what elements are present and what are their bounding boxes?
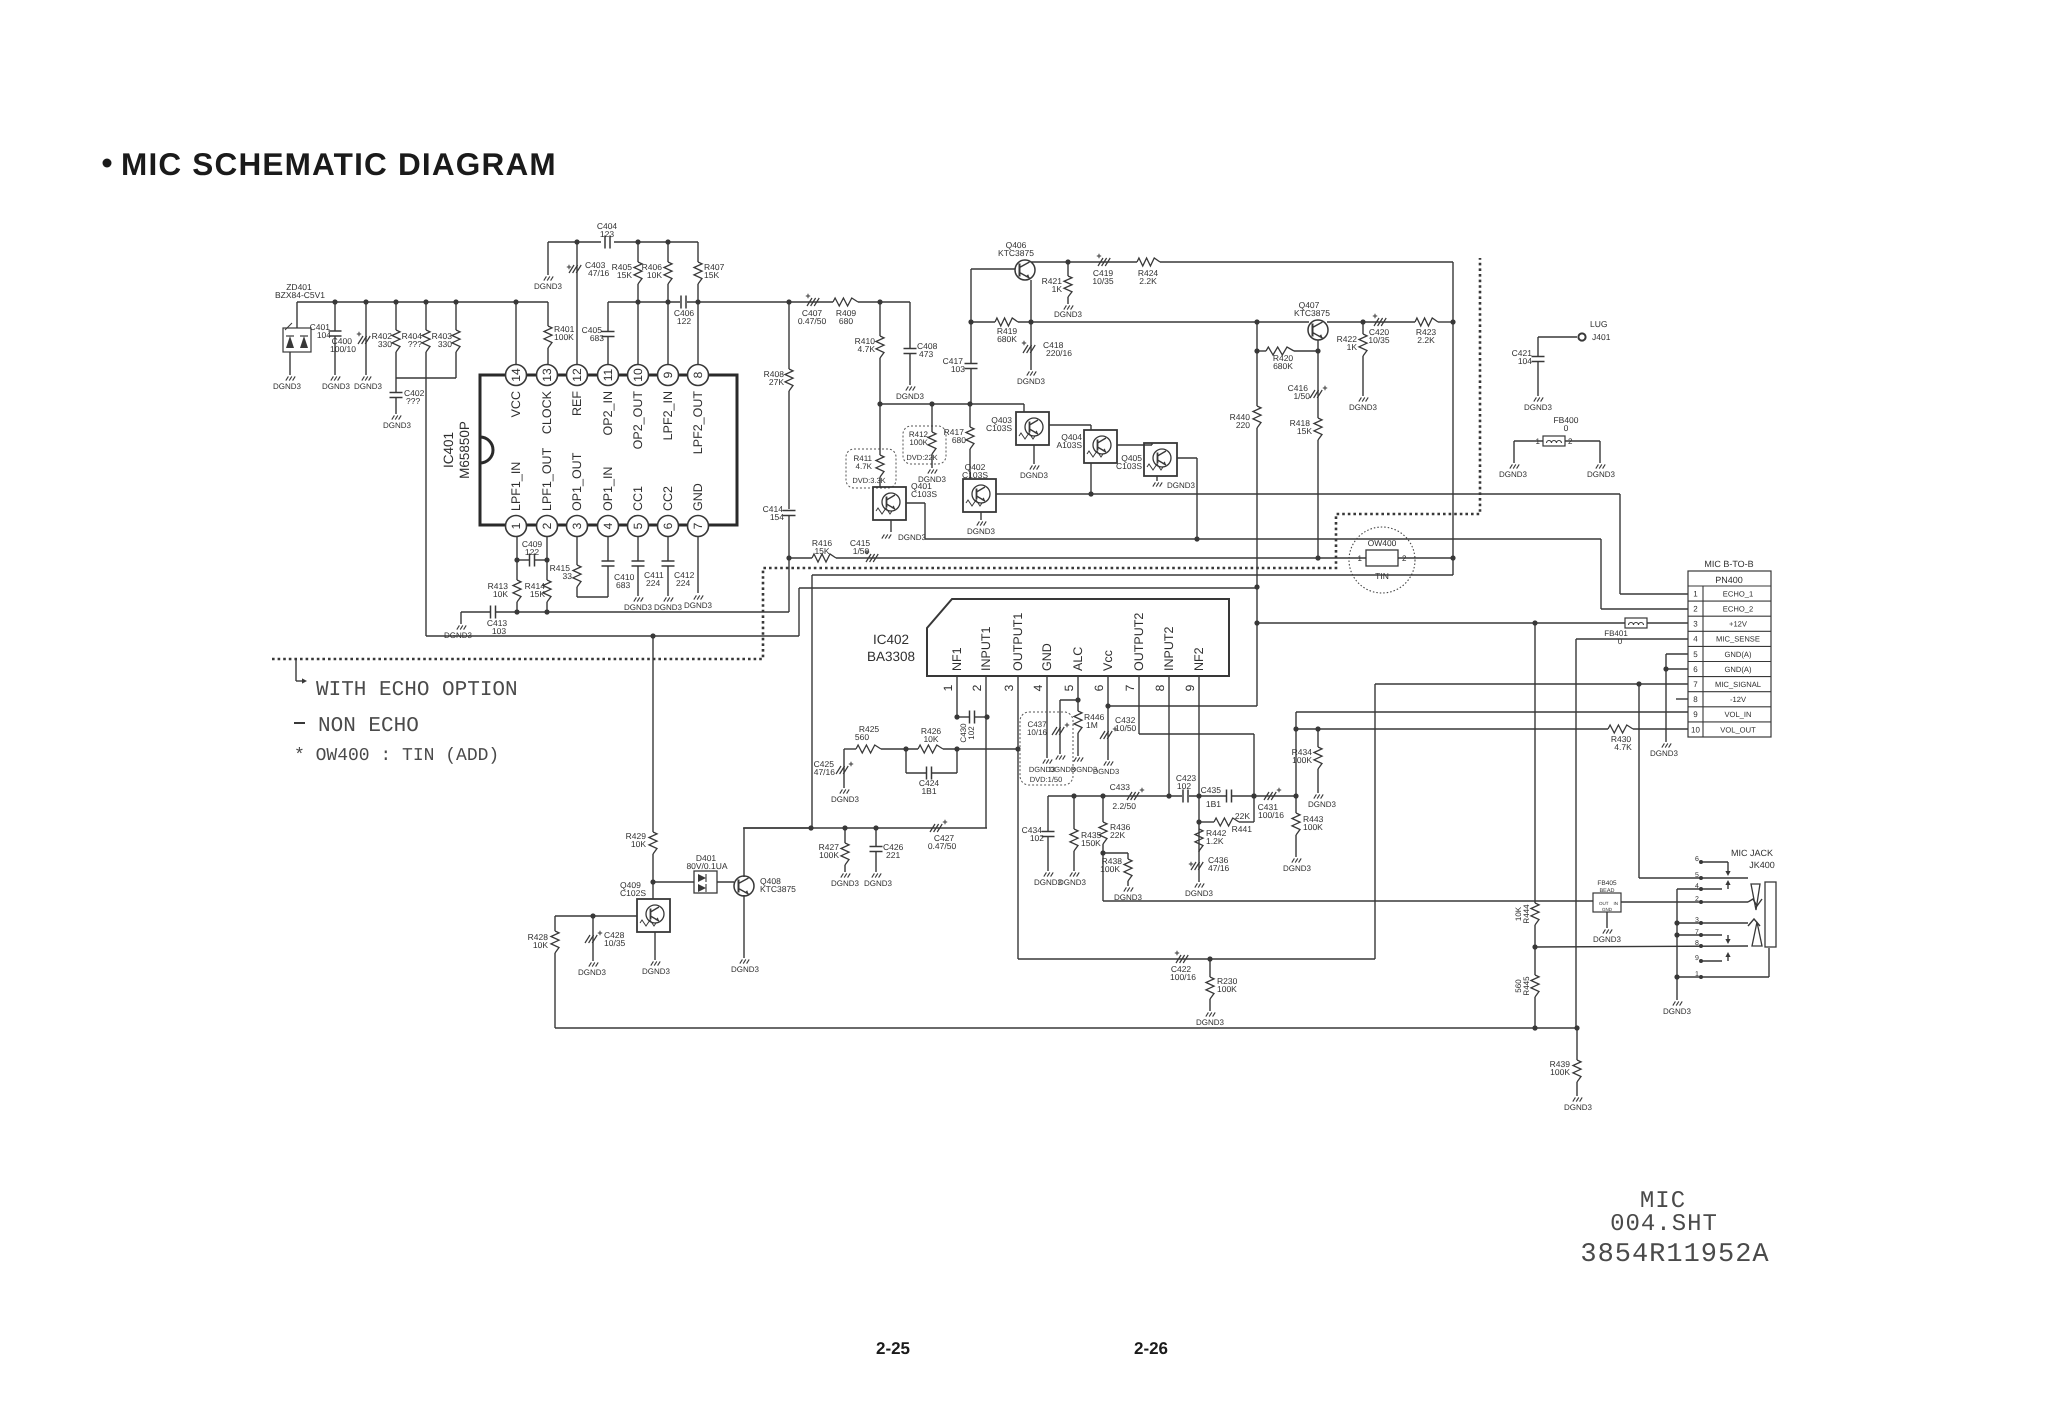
svg-text:DGND3: DGND3: [1663, 1007, 1692, 1016]
svg-text:14: 14: [509, 368, 523, 382]
svg-text:15K: 15K: [530, 589, 545, 599]
ground R435: [1070, 872, 1073, 876]
svg-text:2: 2: [970, 684, 984, 691]
wire Q404 collector to Q405: [1117, 444, 1152, 446]
jack JK400 terminal 9: [1699, 959, 1703, 963]
svg-text:PN400: PN400: [1715, 575, 1743, 585]
ground R412: [928, 469, 931, 473]
svg-text:VOL_IN: VOL_IN: [1724, 710, 1751, 719]
capacitor C400: [365, 302, 367, 375]
wire pin3 OUTPUT1 column: [1017, 690, 1019, 959]
svg-text:5: 5: [1062, 684, 1076, 691]
svg-text:680: 680: [952, 435, 966, 445]
capacitor C428: [592, 916, 594, 961]
svg-text:DGND3: DGND3: [898, 533, 927, 542]
capacitor C402: [395, 378, 397, 392]
svg-text:7: 7: [691, 522, 705, 529]
capacitor C401: [334, 302, 336, 331]
wire x653 column: [652, 636, 654, 832]
svg-text:???: ???: [406, 396, 420, 406]
ground C428: [589, 962, 592, 966]
wire mic_signal y684: [1375, 683, 1688, 685]
transistor Q406: [1015, 260, 1035, 280]
title bullet: [103, 159, 112, 168]
svg-text:8: 8: [1693, 695, 1698, 704]
svg-text:DGND3: DGND3: [1283, 864, 1312, 873]
svg-text:DGND3: DGND3: [831, 795, 860, 804]
svg-text:LPF1_OUT: LPF1_OUT: [540, 447, 554, 511]
wire pin5/6 gnd column: [1666, 653, 1688, 655]
svg-text:DGND3: DGND3: [1349, 403, 1378, 412]
svg-text:DGND3: DGND3: [654, 603, 683, 612]
resistor R446: [1074, 711, 1082, 733]
svg-text:GND: GND: [1040, 643, 1054, 671]
svg-text:R441: R441: [1232, 824, 1253, 834]
svg-text:KTC3875: KTC3875: [998, 248, 1034, 258]
resistor R417: [969, 404, 971, 427]
svg-text:DVD:22K: DVD:22K: [906, 453, 937, 462]
wire Q409 base y916: [555, 915, 637, 917]
svg-text:10/50: 10/50: [1115, 723, 1137, 733]
svg-text:10: 10: [631, 368, 645, 382]
svg-text:MIC_SENSE: MIC_SENSE: [1716, 635, 1760, 644]
resistor R442: [1195, 829, 1203, 851]
ground C412: [664, 597, 667, 601]
svg-text:DGND3: DGND3: [684, 601, 713, 610]
svg-text:3: 3: [570, 522, 584, 529]
wire Q401 collector to echo2 bus: [906, 502, 925, 504]
svg-text:2.2K: 2.2K: [1139, 276, 1157, 286]
wire input network y749: [844, 748, 856, 750]
svg-text:* OW400 : TIN (ADD): * OW400 : TIN (ADD): [294, 746, 499, 766]
wire echo2 bus y539: [925, 538, 1601, 540]
capacitor C431: [1264, 792, 1269, 800]
capacitor C407: [807, 298, 812, 306]
svg-text:GND: GND: [691, 483, 705, 511]
svg-text:33: 33: [563, 571, 573, 581]
wire FB405 out to jack pin2: [1621, 901, 1748, 903]
resistor R424: [1137, 258, 1160, 266]
capacitor C418: [1030, 322, 1032, 370]
wire jack pin2 contact: [1748, 899, 1762, 906]
ground C425: [840, 789, 843, 793]
ground C411: [634, 597, 637, 601]
capacitor C411: [637, 537, 639, 561]
capacitor C421: [1532, 356, 1545, 358]
svg-text:100/10: 100/10: [330, 344, 356, 354]
svg-text:3: 3: [1002, 684, 1016, 691]
svg-text:47/16: 47/16: [588, 268, 610, 278]
jack JK400 terminal 7: [1699, 933, 1703, 937]
ground left end of C404 rail: [547, 242, 549, 275]
svg-text:6: 6: [1695, 856, 1699, 863]
dashed echo option bus: [272, 258, 1480, 659]
svg-text:680K: 680K: [1273, 361, 1293, 371]
svg-text:MIC JACK: MIC JACK: [1731, 848, 1773, 858]
svg-text:DGND3: DGND3: [1196, 1018, 1225, 1027]
svg-text:683: 683: [616, 580, 630, 590]
wire y588 feed: [799, 587, 1257, 589]
resistor R406: [667, 242, 669, 262]
svg-text:DVD:3.3K: DVD:3.3K: [852, 476, 885, 485]
svg-text:6: 6: [1092, 684, 1106, 691]
pin 14 IC401 VCC: [506, 365, 527, 386]
transistor Q409 digital: [637, 899, 670, 932]
svg-text:22K: 22K: [1110, 830, 1125, 840]
svg-text:104: 104: [317, 330, 331, 340]
transistor Q401 digital: [873, 487, 906, 520]
transistor Q404 digital: [1084, 430, 1117, 463]
svg-text:LPF1_IN: LPF1_IN: [509, 462, 523, 511]
wire C414 down to y612: [786, 555, 791, 560]
svg-text:DGND3: DGND3: [896, 392, 925, 401]
svg-text:DGND3: DGND3: [1650, 749, 1679, 758]
capacitor C403 on REF pin: [576, 242, 578, 364]
svg-text:12: 12: [570, 368, 584, 382]
svg-text:100K: 100K: [1100, 864, 1120, 874]
lug J401: [1578, 333, 1585, 340]
capacitor C409: [517, 559, 529, 561]
wire Q403 base entry: [1023, 404, 1025, 412]
svg-text:ECHO_1: ECHO_1: [1723, 589, 1753, 598]
wire Q407 emitter down x1318: [1317, 340, 1319, 351]
svg-text:DGND3: DGND3: [444, 631, 473, 640]
svg-text:DGND3: DGND3: [1524, 403, 1553, 412]
wire jack pin9: [1701, 960, 1722, 962]
wire Q408 emitter: [743, 895, 745, 958]
svg-text:KTC3875: KTC3875: [760, 884, 796, 894]
svg-text:103: 103: [492, 626, 506, 636]
svg-text:004.SHT: 004.SHT: [1610, 1211, 1718, 1238]
svg-text:10: 10: [1691, 725, 1700, 734]
echo option arrow: [295, 659, 297, 681]
wire riser x812: [811, 575, 813, 828]
svg-text:473: 473: [919, 349, 933, 359]
capacitor C426: [875, 828, 877, 846]
svg-text:GND(A): GND(A): [1725, 650, 1752, 659]
wire C430 link y717: [957, 716, 969, 718]
wire jack pin7: [1677, 934, 1722, 936]
svg-text:LPF2_OUT: LPF2_OUT: [691, 391, 705, 455]
svg-text:DGND3: DGND3: [642, 967, 671, 976]
svg-text:1/50: 1/50: [1293, 391, 1310, 401]
svg-text:INPUT1: INPUT1: [979, 627, 993, 672]
wire pin5 ALC column: [1077, 690, 1079, 711]
wire jack pin6: [1701, 861, 1728, 863]
ground R434: [1314, 794, 1317, 798]
pin 2 IC401 LPF1_OUT: [537, 516, 558, 537]
resistor R418: [1317, 400, 1319, 418]
jack contact blade lower: [1752, 922, 1762, 946]
capacitor C433: [1127, 792, 1132, 800]
svg-text:Vcc: Vcc: [1101, 650, 1115, 671]
svg-text:10K: 10K: [923, 734, 938, 744]
resistor R443: [1295, 796, 1297, 813]
IC IC401 box: [480, 375, 737, 525]
ground Q405 emitter: [1156, 476, 1158, 481]
wire Q406 emitter x1031: [1030, 280, 1032, 322]
svg-text:122: 122: [525, 547, 539, 557]
svg-text:R445: R445: [1522, 976, 1531, 996]
svg-text:0.47/50: 0.47/50: [928, 841, 957, 851]
svg-text:100K: 100K: [1303, 822, 1323, 832]
wire VCC pin6 feed y706: [1108, 705, 1257, 707]
ground C400: [362, 376, 365, 380]
svg-text:10K: 10K: [533, 940, 548, 950]
svg-text:DGND3: DGND3: [1054, 310, 1083, 319]
svg-text:DGND3: DGND3: [1587, 470, 1616, 479]
ground C436: [1195, 883, 1198, 887]
capacitor C405 on OP2_IN pin: [607, 302, 609, 331]
resistor R425: [856, 745, 881, 753]
ground C401: [331, 376, 334, 380]
resistor R415: [576, 537, 578, 565]
pin 1 IC401 LPF1_IN: [506, 516, 527, 537]
capacitor C435: [1226, 790, 1228, 803]
svg-text:100K: 100K: [554, 332, 574, 342]
svg-text:1: 1: [1358, 554, 1363, 563]
svg-text:C103S: C103S: [962, 470, 988, 480]
capacitor C424 parallel: [905, 749, 907, 773]
svg-text:FB401: FB401: [1604, 629, 1628, 638]
wire pin2 INPUT1 column: [985, 690, 987, 828]
svg-text:1K: 1K: [1347, 342, 1358, 352]
resistor R230: [1209, 959, 1211, 977]
jumper OW400 body: [1366, 550, 1398, 566]
svg-text:DVD:1/50: DVD:1/50: [1030, 775, 1063, 784]
svg-text:6: 6: [1693, 665, 1698, 674]
wire to D401: [653, 881, 694, 883]
ground FB405: [1606, 912, 1608, 928]
svg-text:9: 9: [1695, 955, 1699, 962]
svg-text:154: 154: [770, 512, 784, 522]
svg-text:122: 122: [677, 316, 691, 326]
svg-text:100/16: 100/16: [1258, 810, 1284, 820]
resistor R402: [395, 302, 397, 330]
text NON ECHO: [294, 722, 305, 724]
wire pin8 INPUT2 column: [1168, 690, 1170, 796]
jumper OW400 dotted circle: [1349, 527, 1415, 593]
svg-text:10/35: 10/35: [1092, 276, 1114, 286]
wire input bus y828: [743, 827, 987, 829]
transistor Q405 digital: [1144, 443, 1177, 476]
ferrite bead FB401: [1625, 618, 1647, 628]
capacitor C416: [1317, 351, 1319, 400]
ground Q408: [740, 959, 743, 963]
ground C413: [460, 612, 462, 624]
svg-text:5: 5: [631, 522, 645, 529]
wire x799 link: [798, 588, 800, 636]
svg-text:DGND3: DGND3: [624, 603, 653, 612]
svg-text:680K: 680K: [997, 334, 1017, 344]
svg-text:2-25: 2-25: [876, 1339, 910, 1358]
svg-text:J401: J401: [1592, 332, 1611, 342]
svg-text:47/16: 47/16: [814, 767, 836, 777]
jack JK400 terminal 1: [1699, 975, 1703, 979]
svg-text:DGND3: DGND3: [731, 965, 760, 974]
svg-text:OW400: OW400: [1368, 538, 1397, 548]
wire echo1 drop to PN400 pin1: [1619, 494, 1621, 594]
svg-text:9: 9: [661, 371, 675, 378]
svg-text:3: 3: [1693, 620, 1698, 629]
svg-text:C103S: C103S: [986, 423, 1012, 433]
svg-text:BA3308: BA3308: [867, 649, 915, 664]
connector PN400 grid: [1688, 585, 1771, 587]
wire R436 down to y901: [1102, 853, 1104, 901]
svg-text:LUG: LUG: [1590, 319, 1607, 329]
svg-text:13: 13: [540, 368, 554, 382]
ground C432: [1104, 761, 1107, 765]
capacitor C413: [490, 606, 492, 619]
svg-text:BZX84-C5V1: BZX84-C5V1: [275, 290, 325, 300]
svg-text:102: 102: [1030, 833, 1044, 843]
ground R439: [1573, 1097, 1576, 1101]
wire Q409 collector up: [652, 882, 654, 899]
zener ZD401 dual diode: [296, 302, 298, 328]
svg-text:224: 224: [646, 578, 660, 588]
wire mic signal drop x1639: [1638, 684, 1640, 878]
jack JK400 terminal 4: [1699, 887, 1703, 891]
svg-text:0.47/50: 0.47/50: [798, 316, 827, 326]
wire resistor bottoms y378: [396, 377, 456, 379]
svg-text:NF1: NF1: [950, 647, 964, 671]
svg-text:100K: 100K: [1217, 984, 1237, 994]
resistor R401: [547, 302, 549, 326]
ground ZD401: [289, 352, 291, 375]
wire jack ground column: [1676, 889, 1678, 1000]
junction dots top rail: [332, 299, 337, 304]
wire Q406 base y269: [971, 268, 1015, 270]
svg-text:683: 683: [590, 333, 604, 343]
resistor R413: [516, 560, 518, 580]
resistor R422: [1362, 322, 1364, 334]
svg-text:6: 6: [661, 522, 675, 529]
svg-text:BEAD: BEAD: [1600, 888, 1615, 894]
svg-text:10/16: 10/16: [1027, 728, 1048, 737]
resistor R403: [455, 302, 457, 330]
junction dot 653,636: [650, 633, 655, 638]
pin 7 IC401 GND: [688, 516, 709, 537]
svg-text:CC1: CC1: [631, 486, 645, 511]
svg-text:1: 1: [1693, 589, 1698, 598]
capacitor C417: [970, 322, 972, 363]
wire base rail y322: [971, 321, 995, 323]
svg-text:TIN: TIN: [1375, 571, 1389, 581]
wire top rail y302 left: [297, 301, 548, 303]
wire echo1 bus y494: [996, 493, 1620, 495]
ground R422: [1359, 397, 1362, 401]
junction dots mid rail: [635, 299, 640, 304]
svg-text:1.2K: 1.2K: [1206, 836, 1224, 846]
wire x1535 heavy column: [1534, 623, 1536, 903]
svg-text:LPF2_IN: LPF2_IN: [661, 391, 675, 440]
svg-text:DGND3: DGND3: [1564, 1103, 1593, 1112]
resistor R405: [637, 242, 639, 262]
svg-text:4.7K: 4.7K: [1614, 742, 1632, 752]
capacitor C422: [1176, 955, 1181, 963]
wire bias net y612: [461, 611, 490, 613]
wire non-echo left loop x426: [425, 378, 427, 636]
svg-text:MIC SCHEMATIC DIAGRAM: MIC SCHEMATIC DIAGRAM: [121, 146, 557, 182]
svg-text:R444: R444: [1522, 904, 1531, 924]
svg-text:15K: 15K: [814, 546, 829, 556]
svg-text:WITH ECHO OPTION: WITH ECHO OPTION: [316, 679, 518, 702]
svg-text:1M: 1M: [1086, 720, 1098, 730]
ferrite bead FB405: [1593, 893, 1621, 912]
resistor R435: [1073, 796, 1075, 829]
wire vol_out y729: [1296, 728, 1608, 730]
svg-text:221: 221: [886, 850, 900, 860]
junction dots C404 rail: [574, 239, 579, 244]
capacitor C419: [1098, 258, 1103, 266]
ground C408: [906, 386, 909, 390]
junction dot 1031,322: [1028, 319, 1033, 324]
svg-text:1B1: 1B1: [921, 786, 936, 796]
resistor R429: [649, 832, 657, 854]
svg-text:DGND3: DGND3: [1499, 470, 1528, 479]
svg-text:C433: C433: [1110, 782, 1131, 792]
svg-text:C103S: C103S: [1116, 461, 1142, 471]
svg-text:1: 1: [941, 684, 955, 691]
jack JK400 terminal 3: [1699, 921, 1703, 925]
svg-text:???: ???: [408, 339, 422, 349]
capacitor C430: [969, 711, 971, 724]
wire pin1 stub: [516, 537, 518, 560]
svg-text:15K: 15K: [1297, 426, 1312, 436]
svg-text:5: 5: [1693, 650, 1698, 659]
svg-text:10K: 10K: [647, 270, 662, 280]
svg-text:3854R11952A: 3854R11952A: [1580, 1240, 1769, 1270]
svg-text:1B1: 1B1: [1206, 799, 1221, 809]
svg-text:DGND3: DGND3: [322, 382, 351, 391]
wire right drop x1453: [1452, 262, 1454, 575]
svg-text:DGND3: DGND3: [1020, 471, 1049, 480]
svg-text:4.7K: 4.7K: [856, 462, 873, 471]
wire FB400 pin2 to ground: [1565, 440, 1600, 442]
resistor R404: [425, 302, 427, 330]
svg-text:M65850P: M65850P: [457, 421, 472, 479]
svg-text:DGND3: DGND3: [864, 879, 893, 888]
svg-text:8: 8: [1153, 684, 1167, 691]
svg-text:OP1_IN: OP1_IN: [601, 467, 615, 511]
svg-text:IN: IN: [1614, 901, 1619, 906]
pin 8 IC401 LPF2_OUT: [688, 365, 709, 386]
jack contact blade upper: [1751, 884, 1760, 910]
wire Q408 collector riser: [743, 828, 745, 877]
svg-text:OP2_IN: OP2_IN: [601, 391, 615, 435]
resistor R416: [812, 554, 836, 562]
resistor R423: [1415, 318, 1438, 326]
wire pin7 OUTPUT2 path: [1138, 690, 1140, 734]
jack JK400 terminal 6: [1699, 860, 1703, 864]
capacitor C404: [604, 236, 606, 249]
ground R446: [1074, 757, 1077, 761]
svg-text:560: 560: [855, 732, 869, 742]
svg-text:OP1_OUT: OP1_OUT: [570, 452, 584, 511]
svg-text:MIC_SIGNAL: MIC_SIGNAL: [1715, 680, 1761, 689]
wire pin9 NF2 column: [1198, 690, 1200, 852]
ground pin4 GND: [1046, 690, 1048, 758]
svg-text:C435: C435: [1201, 785, 1222, 795]
ground C426: [872, 873, 875, 877]
svg-text:DGND3: DGND3: [1058, 878, 1087, 887]
pin 12 IC401 REF: [567, 365, 588, 386]
capacitor C415: [836, 557, 1366, 559]
svg-text:330: 330: [378, 339, 392, 349]
svg-text:IC402: IC402: [873, 632, 909, 647]
svg-text:1: 1: [509, 522, 523, 529]
wire to jack pin8 y947: [1535, 946, 1748, 947]
